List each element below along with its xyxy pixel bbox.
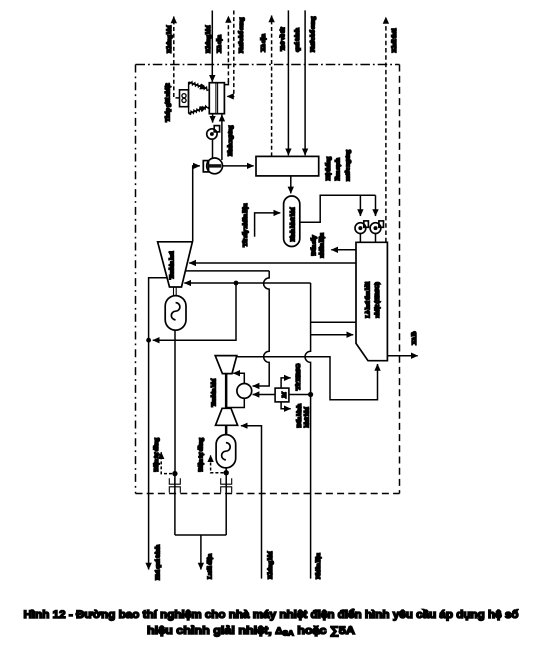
wire: steam turbine exhaust up to condenser <box>193 166 200 242</box>
svg-text:Hình 12 - Đường bao thí nghiệm: Hình 12 - Đường bao thí nghiệm cho nhà m… <box>24 609 519 621</box>
svg-text:Xả cặn: Xả cặn <box>260 34 267 52</box>
cooling water box divider lines <box>215 83 217 114</box>
wire: generator output down <box>174 330 176 471</box>
test boundary (dash-dot envelope) top edge <box>136 64 400 66</box>
deaerator (Binh khu khi) <box>284 196 300 247</box>
steam turbine shaft (double line) <box>173 287 175 296</box>
wire: from fuel drying into deaerator <box>255 213 281 237</box>
gas turbine generator <box>216 435 236 468</box>
wire: from HRSG stub to M box <box>281 378 291 388</box>
svg-text:khử khí: khử khí <box>304 407 311 427</box>
combustor <box>237 384 252 399</box>
condenser tube bundle band <box>208 164 221 167</box>
gas turbine shaft to compressor (thick) <box>225 374 228 409</box>
wire: air into cooling tower box (solid, down arrow) <box>211 11 213 82</box>
circulating water pump <box>207 126 220 140</box>
wire: aux power dashed arrow (steam side) <box>161 452 172 473</box>
combustor outlet elbow into turbine <box>233 373 244 383</box>
node junction on process steam line <box>146 338 151 343</box>
wire: M box to fuel riser <box>289 394 311 396</box>
svg-text:Không khí: Không khí <box>267 551 274 579</box>
svg-text:Tuabin hơi: Tuabin hơi <box>168 251 175 279</box>
wire: GT exhaust duct to HRSG bottom <box>237 357 378 400</box>
node junction on fuel riser <box>308 392 313 397</box>
svg-text:nhiệt (HRSG): nhiệt (HRSG) <box>374 282 381 317</box>
svg-text:Khói thải: Khói thải <box>391 28 398 52</box>
compressor <box>216 408 238 425</box>
HRSG (Lo hoi thu hoi nhiet) <box>356 242 387 360</box>
svg-text:quá trình: quá trình <box>294 28 301 52</box>
generator sine symbol <box>222 443 231 460</box>
transformer T1 (two combs) <box>169 478 180 493</box>
wire: turbine extraction to combustor steam line (horizontal) <box>186 270 270 272</box>
condensate polishing system box <box>256 156 319 176</box>
wire: cooling water down to circulating pump <box>212 114 214 123</box>
wire: transformer 1 down to tie bar <box>174 476 176 535</box>
svg-text:nhiên liệu: nhiên liệu <box>319 233 326 258</box>
wire: tie bar joining both transformers <box>175 534 226 536</box>
wire: grid export down (Luoi dien) <box>200 535 202 570</box>
wire: feed pump 1 to HRSG <box>359 234 361 243</box>
wire: tee down and left to process steam line <box>153 283 236 340</box>
svg-text:nước ngưng: nước ngưng <box>344 149 351 181</box>
svg-text:hiệu chỉnh giải nhiệt, ΔSA hoặ: hiệu chỉnh giải nhiệt, ΔSA hoặc ∑5A <box>147 625 355 638</box>
wire: fuel from M box into combustor <box>253 394 276 396</box>
transformer T2 (two combs) <box>221 478 232 493</box>
node junction at aux steam tee <box>234 281 239 286</box>
svg-text:Bình khử khí: Bình khử khí <box>289 207 296 241</box>
generator sine symbol <box>171 303 180 320</box>
compressor to generator shaft (thick) <box>225 425 228 434</box>
boiler feed pump 1 <box>355 221 368 234</box>
svg-text:Hơi quá trình: Hơi quá trình <box>154 545 161 580</box>
wire: air intake to compressor <box>241 426 262 579</box>
wire: riser branch duct burner arrow into HRSG <box>311 334 354 336</box>
svg-text:Xả lò: Xả lò <box>411 331 418 345</box>
svg-text:Nước bổ sung: Nước bổ sung <box>309 16 316 52</box>
wire: pump discharge to condenser <box>212 139 214 158</box>
wire: main steam from HRSG to steam turbine <box>189 262 356 264</box>
svg-text:Hệ thống: Hệ thống <box>325 156 332 180</box>
gas turbine (Tuabin khi) <box>215 356 237 374</box>
wire: drop to feed pump 1 <box>359 195 361 216</box>
node junction above transformer 1 <box>172 471 177 476</box>
cooling tower horn bottom slant with arrow <box>189 107 207 114</box>
wire: M box stub to deaerator <box>281 402 291 409</box>
wire: gland/aux steam line into turbine (left arrow) <box>184 282 236 284</box>
wire: return from process into polisher (solid, down arrow) <box>287 10 289 155</box>
svg-text:làm sạch: làm sạch <box>335 158 342 181</box>
steam turbine generator <box>165 296 186 331</box>
svg-text:Tuabin khí: Tuabin khí <box>210 379 217 407</box>
wire: Khoi thai stack gas (dashed, up arrow) <box>385 17 387 242</box>
cooling tower fill zigzag bottom <box>189 106 210 115</box>
svg-text:Không khí: Không khí <box>205 25 212 53</box>
boiler feed pump 2 <box>370 221 383 234</box>
wire: cooling water return up into box <box>221 115 223 160</box>
cooling tower horn left edge <box>188 82 190 114</box>
wire: process steam from turbine down and out (Hoi qua trinh) <box>149 278 168 570</box>
svg-text:Trở về từ: Trở về từ <box>279 26 286 51</box>
condenser (Binh ngung) <box>203 158 222 174</box>
svg-text:Điện tự dùng: Điện tự dùng <box>197 437 204 471</box>
cooling water box (tower basin) <box>209 83 224 114</box>
wire: air out of cooling tower (dashed, up arrow) <box>174 17 180 98</box>
wire: Xa lo boiler blowdown out <box>387 355 417 357</box>
svg-text:Lưới điện: Lưới điện <box>206 554 213 579</box>
wire: makeup water into polisher (solid, down arrow) <box>304 10 306 155</box>
svg-text:Tháp giải nhiệt: Tháp giải nhiệt <box>165 83 172 122</box>
test boundary right edge <box>399 65 401 494</box>
svg-text:Nhiên liệu: Nhiên liệu <box>315 553 322 579</box>
arrow into combustor (steam) <box>253 385 257 387</box>
cooling tower fill zigzag top <box>189 82 210 91</box>
wire: deaerator outlet to feed pumps header <box>300 195 376 222</box>
svg-text:Từ HRSG: Từ HRSG <box>295 363 302 391</box>
test boundary left edge <box>135 65 137 494</box>
svg-text:Không khí: Không khí <box>166 25 173 53</box>
fuel metering valve box (M) <box>275 388 289 402</box>
wire: polisher down to deaerator <box>290 176 292 194</box>
svg-text:Điện tự dùng: Điện tự dùng <box>153 437 160 471</box>
wire: riser branch to HRSG (upper) <box>311 321 356 323</box>
wire: feed pump 2 to HRSG <box>375 234 377 243</box>
svg-text:Đến sấy: Đến sấy <box>311 234 318 255</box>
test boundary bottom edge <box>136 493 400 495</box>
wire: GT generator output down <box>225 468 227 471</box>
svg-text:Bình ngưng: Bình ngưng <box>227 125 234 156</box>
steam turbine (Tuabin hoi) <box>158 242 193 287</box>
svg-text:Từ sấy nhiên liệu: Từ sấy nhiên liệu <box>242 203 249 247</box>
node junction above transformer 2 <box>224 470 229 475</box>
svg-text:Đến bình: Đến bình <box>296 403 303 427</box>
cooling tower horn top slant with arrow <box>189 82 207 89</box>
wire: vertical steam injection line with hops <box>256 271 270 386</box>
wire: fuel riser (Nhien lieu) with hop <box>305 283 311 579</box>
wire: drop to feed pump 2 <box>375 195 377 216</box>
wire: Xa can blowdown from tower box (dashed, up arrow) <box>224 81 228 85</box>
wire: transformer 2 down to tie bar <box>225 475 227 535</box>
combustor feed elbow (compressor discharge) <box>226 398 244 407</box>
wire: aux steam tee to fuel riser corner <box>236 282 311 284</box>
wire: Xa can blowdown from condensate polisher (dashed, up arrow) <box>271 16 273 157</box>
wire: to fuel drying from HRSG (left arrow) <box>331 249 356 251</box>
wire: condensate from condenser to polisher <box>223 165 254 167</box>
svg-text:M: M <box>281 391 288 399</box>
svg-text:Xả cặn: Xả cặn <box>216 35 223 53</box>
wire: Nuoc bo sung makeup to tower box (dashed, left arrow into box) <box>227 11 234 97</box>
svg-text:Nước bổ sung: Nước bổ sung <box>238 17 245 53</box>
svg-text:Lò hơi thu hồi: Lò hơi thu hồi <box>364 282 371 318</box>
wire: aux power dashed arrow (GT side) <box>211 455 224 473</box>
cooling tower fan motor circles <box>182 94 186 98</box>
cooling tower fan box <box>180 90 189 107</box>
